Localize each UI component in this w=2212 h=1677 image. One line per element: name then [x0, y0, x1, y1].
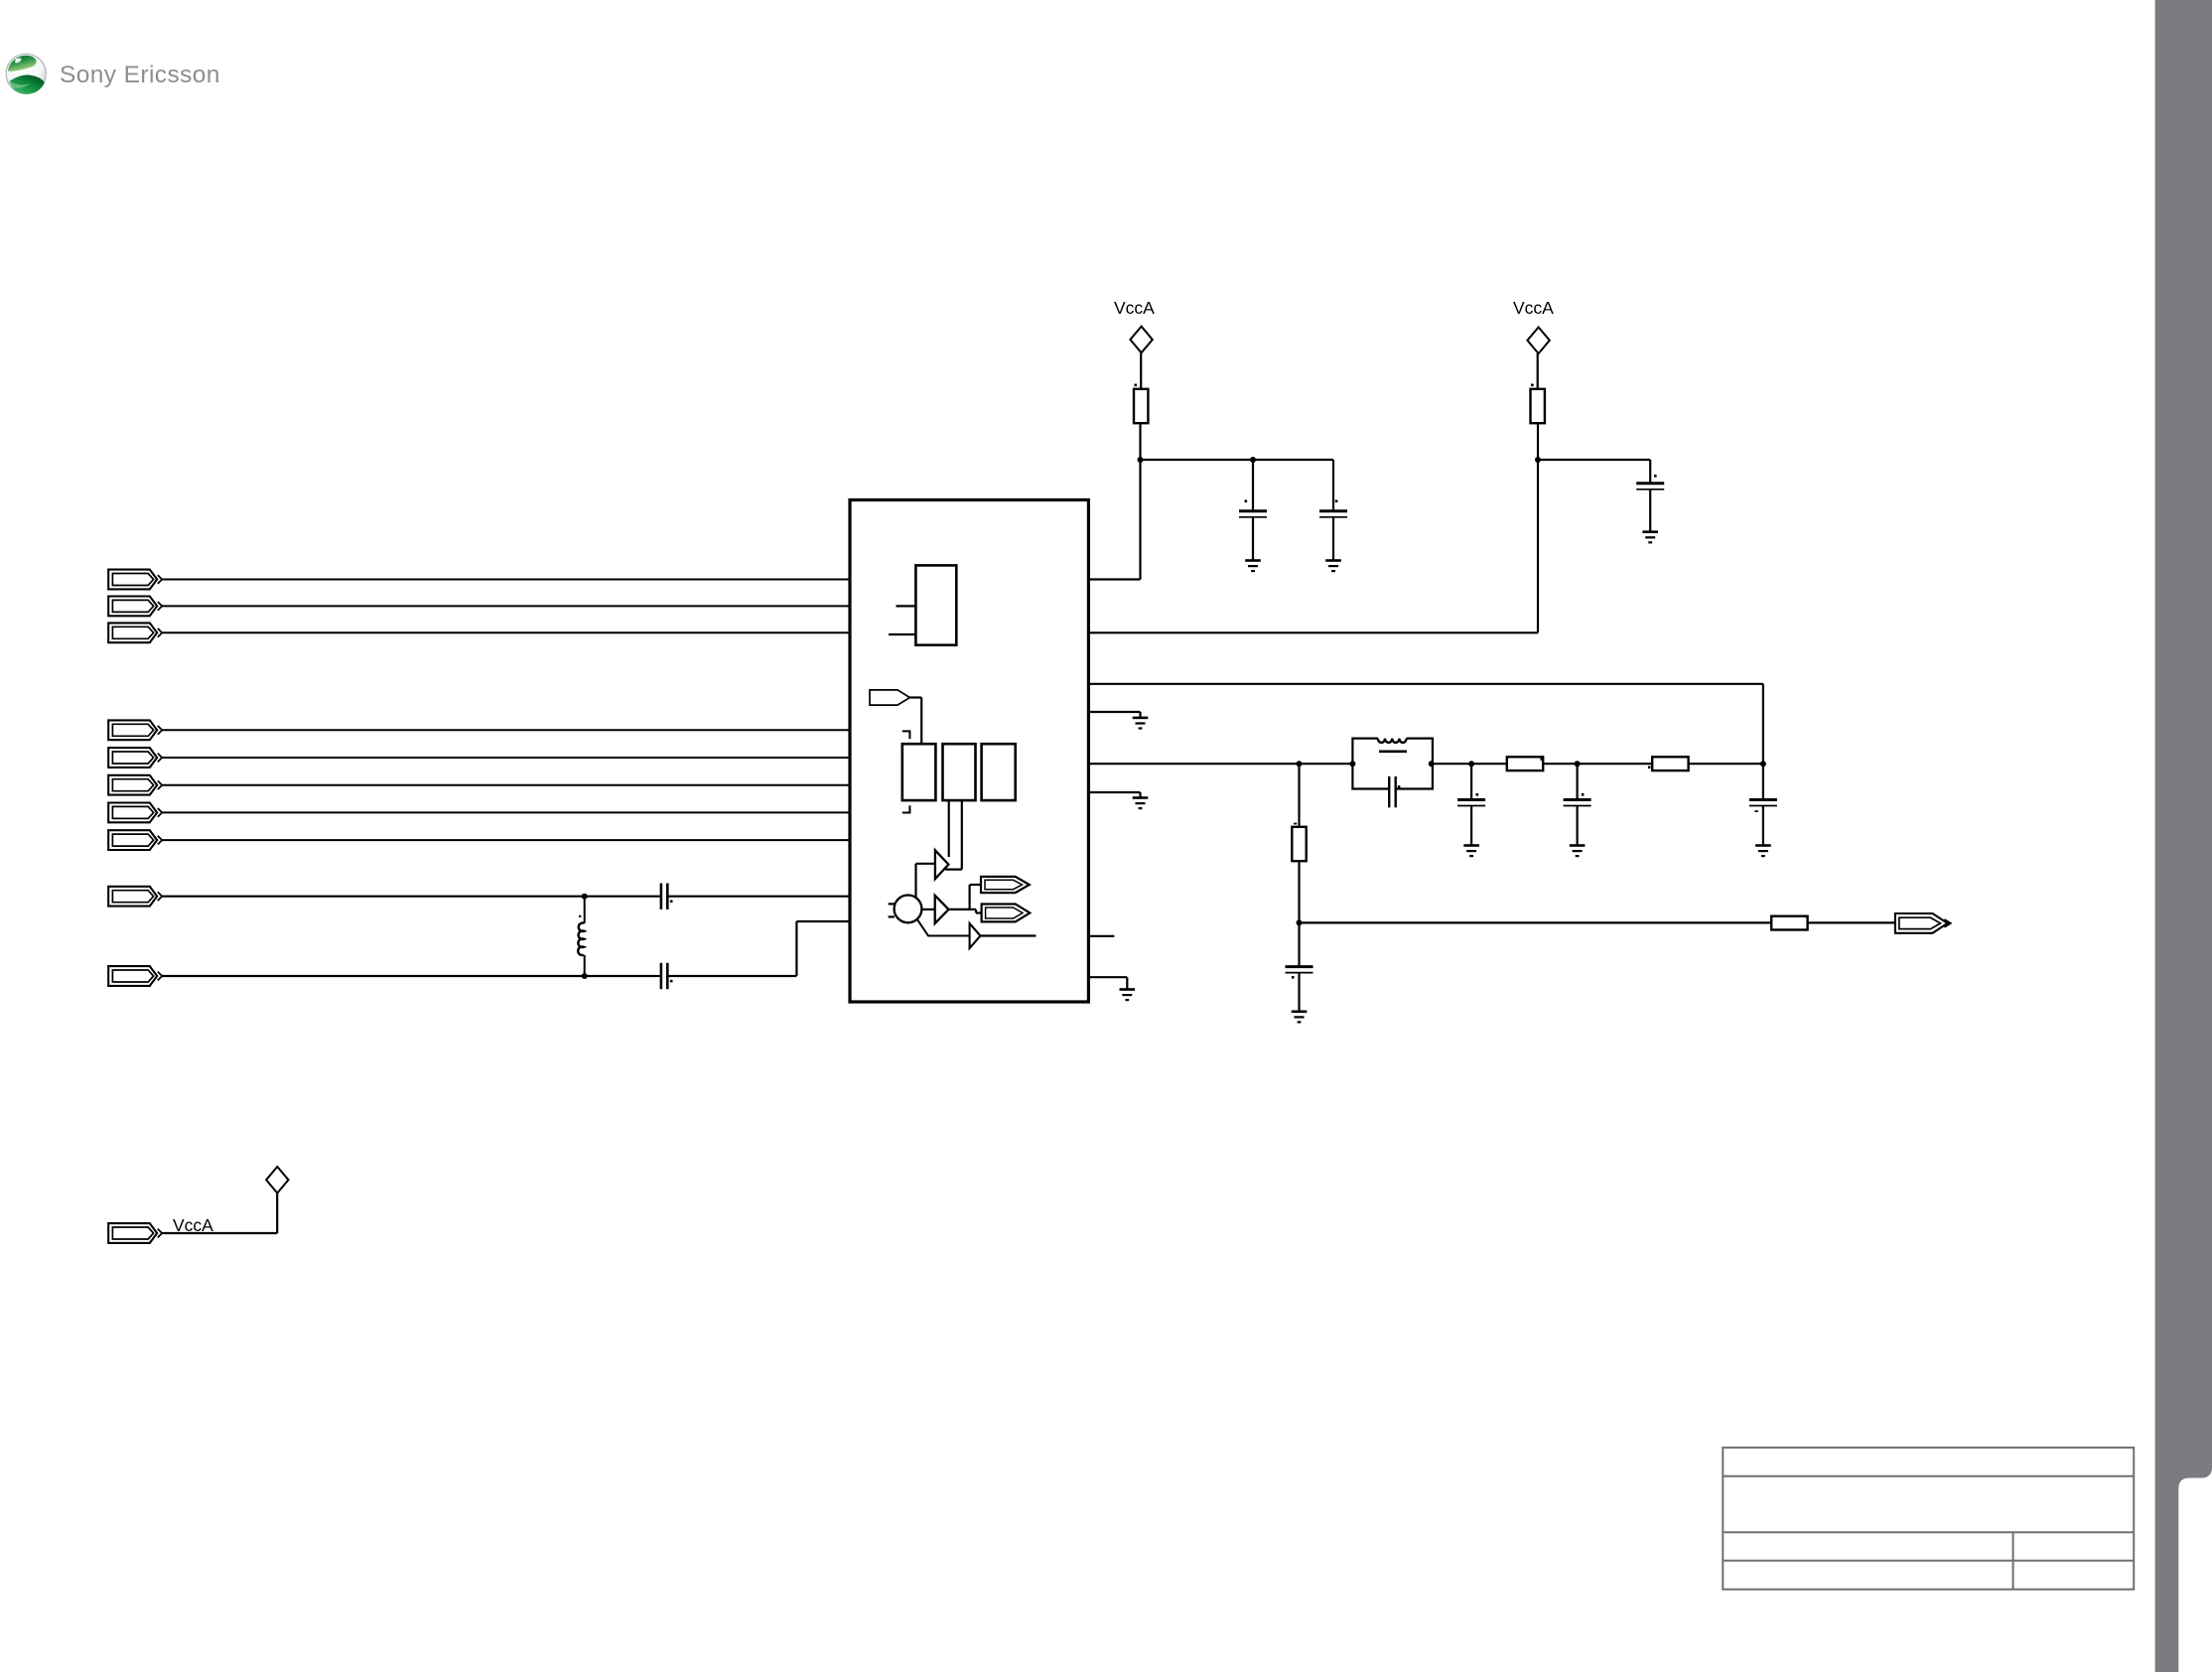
- wire JH down to C4: [1470, 764, 1472, 798]
- capacitor C2: [1319, 511, 1347, 517]
- node JI junction: [1575, 761, 1581, 767]
- ground G9: [1755, 846, 1771, 857]
- label dot R4: [1648, 767, 1651, 769]
- capacitor C6: [1749, 800, 1777, 806]
- capacitor C1: [1239, 511, 1267, 517]
- wire C3 to ground: [1649, 489, 1651, 531]
- capacitor C-series-1 (row 9): [661, 884, 667, 909]
- wire JG down to C6: [1762, 764, 1764, 798]
- wire R1 top to VccA symbol: [1140, 352, 1142, 389]
- wire OSC to T3: [916, 918, 969, 935]
- connector IN2: [108, 597, 162, 617]
- wire C4 to ground: [1470, 806, 1472, 845]
- label dot C8: [1398, 785, 1401, 788]
- buffer T3: [970, 923, 981, 948]
- wire IN10 to bend: [667, 975, 796, 977]
- buffer T2: [935, 896, 949, 923]
- Sony Ericsson logo sphere: [6, 54, 47, 94]
- wire U1 pin-h stub: [1089, 976, 1128, 978]
- capacitor C4: [1457, 800, 1485, 806]
- ground G6: [1120, 990, 1136, 1001]
- resistor R5: [1292, 827, 1306, 861]
- power VccA diamond 2: [1527, 328, 1549, 354]
- wire IN5 to U1: [162, 757, 850, 759]
- oscillator circle OSC: [895, 896, 922, 923]
- node JC junction: [1535, 457, 1541, 463]
- wire JA to decoupling caps: [1141, 459, 1334, 461]
- wire JD down to R5: [1298, 764, 1300, 827]
- label dot R6: [1806, 915, 1809, 918]
- wire C2 to ground: [1332, 517, 1334, 560]
- wire JI down to C5: [1576, 764, 1578, 798]
- wire IN3 to U1: [162, 631, 850, 633]
- wire toward FB: [970, 908, 976, 910]
- wire IN4 to U1: [162, 729, 850, 731]
- ground G8: [1570, 846, 1586, 857]
- connector OUT: [1895, 913, 1951, 933]
- power VccA diamond 3: [266, 1167, 288, 1193]
- label dot C7: [1292, 976, 1295, 979]
- wire tank to R3: [1433, 763, 1508, 765]
- wire R3 to R4: [1543, 763, 1653, 765]
- ground G10: [1292, 1012, 1308, 1023]
- wire R5 to node JJ: [1298, 861, 1300, 922]
- connector IN8: [108, 830, 162, 850]
- wire T1 input from oscillator: [914, 864, 916, 898]
- wire IN1 to U1: [162, 579, 850, 581]
- op-amp U1 main IC body: [850, 500, 1088, 1003]
- node J10 junction: [582, 973, 588, 979]
- wire IN9 right segment to U1: [667, 896, 850, 898]
- connector IN4: [108, 720, 162, 740]
- capacitor C-series-2 (row 10): [661, 963, 667, 989]
- resistor R1: [1134, 389, 1148, 423]
- wire IN7 to U1: [162, 811, 850, 813]
- connector IN7: [108, 803, 162, 823]
- wire U1 pin-e main: [1089, 763, 1353, 765]
- svg-text:VccA: VccA: [173, 1215, 213, 1235]
- resistor R6: [1771, 916, 1807, 930]
- wire U1 pin-c long top: [1089, 683, 1763, 685]
- wire F1 down to A-block: [920, 698, 922, 745]
- wire up to VccA diamond 3: [276, 1193, 278, 1234]
- label dot C5: [1582, 793, 1585, 796]
- connector IN6: [108, 775, 162, 795]
- wire IN10 left segment: [162, 975, 661, 977]
- grey sidebar: [2155, 0, 2212, 1672]
- corner mark upper: [902, 731, 910, 739]
- label dot R1: [1135, 384, 1138, 387]
- node J9 junction: [582, 894, 588, 900]
- connector IN9: [108, 887, 162, 907]
- wire IN8 to U1: [162, 839, 850, 841]
- power VccA diamond 1: [1130, 327, 1152, 353]
- node JG junction: [1760, 761, 1766, 767]
- wire node A up to junction JA: [1139, 460, 1141, 580]
- internal block B: [943, 744, 976, 800]
- wire corner down to C2: [1332, 460, 1334, 510]
- wire IN10 into U1: [796, 920, 850, 922]
- LC tank L2/C8: [1352, 739, 1433, 808]
- ground G1: [1245, 561, 1261, 572]
- wire JC to R2 bottom: [1537, 423, 1539, 460]
- label dot L1: [579, 915, 581, 917]
- label dot C-series-2: [670, 980, 673, 983]
- label dash R5: [1294, 823, 1297, 825]
- label dot R2: [1531, 384, 1534, 387]
- label dot C1: [1245, 500, 1248, 503]
- ribbon bus from block B down to buffer T1: [948, 800, 950, 857]
- svg-text:VccA: VccA: [1513, 298, 1554, 318]
- wire into FB: [976, 911, 982, 913]
- wire C6 to ground: [1762, 806, 1764, 845]
- wire U1 pin-f stub: [1089, 791, 1141, 793]
- node JF junction: [1429, 761, 1435, 767]
- label dot C3: [1654, 475, 1657, 478]
- label dot C2: [1335, 500, 1338, 503]
- wire up to FA: [968, 885, 970, 909]
- wire U1 pin-b to node B: [1089, 631, 1539, 633]
- wire into T1: [916, 863, 935, 865]
- internal flag F1: [870, 690, 909, 705]
- svg-text:Sony Ericsson: Sony Ericsson: [60, 62, 220, 88]
- wire step down FB: [975, 909, 977, 913]
- internal block C: [982, 744, 1016, 800]
- node JA junction: [1138, 457, 1144, 463]
- stub into B1 upper: [897, 605, 916, 607]
- title block table: [1723, 1448, 2134, 1590]
- capacitor C3: [1636, 484, 1664, 489]
- node JH junction: [1468, 761, 1474, 767]
- wire U1 pin-a to node A: [1089, 578, 1141, 580]
- wire F1 to bus: [909, 696, 921, 698]
- wire OSC to T2: [921, 908, 934, 910]
- node JE junction: [1349, 761, 1355, 767]
- svg-text:VccA: VccA: [1114, 298, 1155, 318]
- wire T2 out: [949, 908, 970, 910]
- wire JJ down to C7: [1298, 922, 1300, 965]
- inductor L1 between J9 and J10: [584, 897, 586, 923]
- wire IN10 vertical bend: [795, 921, 797, 976]
- resistor R4: [1652, 757, 1688, 770]
- wire pin-h down: [1126, 977, 1128, 988]
- wire C7 to ground: [1298, 973, 1300, 1011]
- connector VCCIN: [108, 1223, 162, 1243]
- wire JA to R1 bottom: [1139, 423, 1141, 460]
- resistor R2: [1531, 389, 1545, 423]
- node JD junction: [1297, 761, 1303, 767]
- label dot C-series-1: [670, 901, 673, 904]
- stub OSC lower-left: [889, 915, 895, 917]
- wire JJ long to R6: [1300, 921, 1772, 923]
- wire into FA: [970, 884, 981, 886]
- node JB junction: [1250, 457, 1256, 463]
- wire down to node JG: [1762, 684, 1764, 764]
- ground G5: [1133, 798, 1149, 809]
- connector IN3: [108, 623, 162, 642]
- wire R2 top to VccA symbol: [1537, 353, 1539, 389]
- node JJ junction: [1297, 919, 1303, 925]
- wire IN6 to U1: [162, 784, 850, 786]
- label dot R3: [1541, 759, 1544, 762]
- wire IN9 left segment: [162, 896, 661, 898]
- wire pin-d down: [1139, 712, 1141, 717]
- internal block A: [902, 744, 936, 800]
- stub OSC upper-left: [889, 903, 895, 905]
- wire JC to C3: [1538, 459, 1650, 461]
- stub into B1 lower: [889, 633, 915, 635]
- connector IN5: [108, 748, 162, 768]
- ground G4: [1133, 718, 1149, 729]
- wire T3 output: [981, 934, 1037, 936]
- wire U1 pin-g stub: [1089, 935, 1115, 937]
- corner mark lower: [902, 805, 910, 812]
- wire R6 to OUT connector: [1808, 921, 1895, 923]
- wire pin-f down: [1139, 792, 1141, 797]
- capacitor C5: [1564, 800, 1591, 806]
- wire JB down to C1: [1252, 460, 1254, 510]
- ground G3: [1642, 532, 1658, 543]
- connector IN10: [108, 966, 162, 986]
- ground G2: [1325, 561, 1341, 572]
- wire VCCIN to bend: [162, 1232, 277, 1234]
- wire corner down to C3: [1649, 460, 1651, 483]
- label dash C6: [1754, 810, 1757, 812]
- wire IN2 to U1: [162, 605, 850, 607]
- wire U1 pin-d stub: [1089, 711, 1141, 713]
- label dot C4: [1476, 793, 1479, 796]
- ground G7: [1463, 846, 1479, 857]
- wire C5 to ground: [1576, 806, 1578, 845]
- buffer T1: [935, 850, 949, 879]
- connector IN1: [108, 570, 162, 590]
- resistor R3: [1507, 757, 1543, 770]
- wire R4 to node JG: [1689, 763, 1763, 765]
- capacitor C7: [1286, 967, 1313, 973]
- wire node B up to junction JC: [1537, 460, 1539, 632]
- internal flag FB: [982, 905, 1031, 922]
- wire C1 to ground: [1252, 517, 1254, 560]
- internal block B1: [915, 565, 956, 644]
- internal flag FA: [981, 877, 1030, 893]
